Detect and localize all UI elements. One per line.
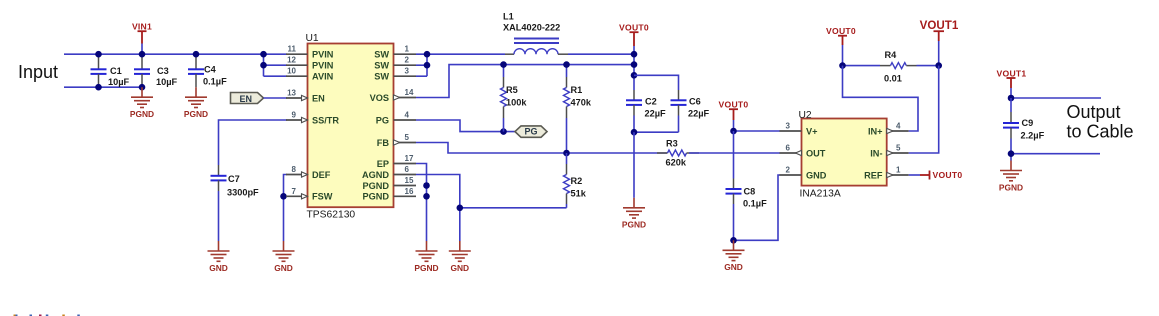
node SW1 [424, 51, 431, 58]
svg-text:C7: C7 [228, 174, 240, 184]
svg-text:U2: U2 [799, 110, 812, 121]
wire C2/C6 bottom join [634, 131, 679, 133]
node VOUT0 at SW rail [631, 51, 638, 58]
svg-text:0.1µF: 0.1µF [743, 199, 767, 209]
svg-text:2.2µF: 2.2µF [1021, 131, 1045, 141]
pin 9 SS/TR stub [286, 111, 339, 126]
capacitor C2 [626, 97, 666, 133]
node PGND pin15 [423, 182, 430, 189]
svg-text:GND: GND [274, 263, 293, 273]
wire DEF down to FSW [284, 175, 288, 242]
pin 6 AGND stub [362, 165, 416, 180]
pin 5 FB stub [377, 133, 416, 148]
svg-text:4: 4 [405, 111, 410, 120]
capacitor C6 [671, 97, 710, 133]
pin 10 AVIN stub [286, 67, 334, 82]
svg-text:AGND: AGND [362, 170, 389, 180]
node PVIN pin11 branch [260, 51, 267, 58]
wire top input rail [64, 53, 287, 55]
wire V+ node down to C8 [733, 131, 735, 179]
pin 11 PVIN stub [286, 45, 334, 60]
power port VOUT1 at R4 right [920, 19, 959, 66]
inductor L1 [503, 12, 568, 55]
svg-text:22µF: 22µF [645, 109, 667, 119]
ground PGND under C3 [130, 87, 154, 119]
svg-text:PGND: PGND [622, 220, 646, 230]
svg-text:12: 12 [287, 56, 296, 65]
svg-text:GND: GND [450, 263, 469, 273]
svg-text:FSW: FSW [312, 192, 333, 202]
wire bottom input rail [64, 86, 142, 88]
svg-text:GND: GND [806, 170, 827, 180]
node C8 bottom [730, 237, 737, 244]
resistor R4 [843, 50, 939, 84]
svg-text:EN: EN [312, 93, 325, 103]
node DEF/FSW junction [280, 193, 287, 200]
svg-text:PG: PG [525, 127, 538, 137]
pin 16 PGND stub [362, 187, 416, 202]
svg-text:EN: EN [240, 94, 253, 104]
wire GND pin2 of U2 [734, 175, 781, 240]
wire REF to VOUT0 port [909, 170, 963, 180]
svg-text:620k: 620k [666, 158, 687, 168]
svg-text:PGND: PGND [184, 109, 208, 119]
pin 5 IN- stub [870, 144, 908, 159]
wire to pin 10 [264, 75, 288, 77]
svg-text:SW: SW [374, 61, 389, 71]
node C2 bottom [631, 129, 638, 136]
svg-text:TPS62130: TPS62130 [307, 210, 356, 221]
svg-text:15: 15 [405, 176, 414, 185]
pin 17 EP stub [377, 154, 416, 169]
svg-text:IN-: IN- [870, 148, 882, 158]
svg-text:U1: U1 [306, 33, 319, 44]
pin 14 VOS stub [370, 88, 416, 103]
svg-text:L1: L1 [503, 12, 514, 22]
power port VOUT0 at R4 left [826, 26, 856, 66]
wire PG [416, 120, 515, 132]
svg-text:SW: SW [374, 50, 389, 60]
svg-text:5: 5 [405, 133, 410, 142]
node C1 top [95, 51, 102, 58]
resistor R2 [564, 153, 587, 208]
svg-text:51k: 51k [571, 189, 587, 199]
power port VIN1 [132, 22, 152, 55]
svg-text:VOUT0: VOUT0 [619, 23, 649, 33]
wire VOS rail [416, 65, 634, 98]
svg-text:C9: C9 [1022, 118, 1034, 128]
bottom clipped text marks [14, 315, 80, 316]
svg-text:8: 8 [292, 165, 297, 174]
svg-text:2: 2 [405, 56, 410, 65]
svg-text:VOUT0: VOUT0 [933, 170, 963, 180]
ground PGND under C4 [184, 87, 208, 119]
op-amp U2 INA213A body [799, 110, 887, 200]
node C3 top / VIN1 [139, 51, 146, 58]
wire FB rail [416, 143, 667, 154]
svg-text:PG: PG [376, 115, 389, 125]
svg-text:AVIN: AVIN [312, 72, 334, 82]
svg-text:1: 1 [896, 166, 901, 175]
svg-text:5: 5 [896, 144, 901, 153]
svg-text:PVIN: PVIN [312, 61, 334, 71]
svg-text:22µF: 22µF [688, 109, 710, 119]
resistor R1 [564, 65, 592, 153]
svg-text:100k: 100k [506, 98, 527, 108]
node SW2 [424, 62, 431, 69]
svg-text:GND: GND [724, 262, 743, 272]
pin 1 SW stub [374, 45, 416, 60]
ground GND under DEF/FSW [273, 241, 295, 273]
node VOUT0 C6 branch [631, 72, 638, 79]
ground GND under C7 [208, 241, 230, 273]
node C4 top [193, 51, 200, 58]
pin 13 EN stub [286, 89, 325, 104]
wire R4 left to IN+ [843, 66, 919, 131]
svg-text:C4: C4 [204, 65, 217, 75]
svg-text:C2: C2 [645, 97, 657, 107]
svg-text:10µF: 10µF [156, 77, 178, 87]
svg-text:Output: Output [1067, 102, 1121, 122]
svg-text:7: 7 [292, 187, 297, 196]
pin 4 IN+ stub [868, 122, 909, 137]
op-amp U1 TPS62130 body [306, 33, 394, 221]
pin 3 V+ stub [780, 122, 818, 137]
svg-text:to Cable: to Cable [1067, 122, 1134, 142]
wire AGND to R2 bottom [460, 207, 567, 209]
wire R3 to OUT [689, 152, 780, 154]
svg-text:C1: C1 [110, 66, 122, 76]
pin 1 REF stub [864, 166, 909, 181]
resistor R3 [657, 139, 699, 168]
wire output bottom [1011, 153, 1100, 155]
svg-text:C6: C6 [689, 97, 701, 107]
wire SS/TR to C7 [219, 120, 288, 165]
node PVIN pin12 branch [260, 62, 267, 69]
pin 7 FSW stub [286, 187, 333, 202]
svg-text:VOS: VOS [370, 93, 389, 103]
svg-text:VOUT1: VOUT1 [920, 19, 959, 32]
node FB / R1 / R2 [563, 150, 570, 157]
node C3 bottom [139, 84, 146, 91]
svg-text:0.01: 0.01 [884, 74, 902, 84]
pin 12 PVIN stub [286, 56, 334, 71]
net flag PG [515, 126, 547, 137]
pin 3 SW stub [374, 67, 416, 82]
svg-text:FB: FB [377, 138, 390, 148]
svg-text:9: 9 [292, 111, 297, 120]
svg-text:PVIN: PVIN [312, 50, 334, 60]
node C9 bottom [1008, 150, 1015, 157]
svg-text:1: 1 [405, 45, 410, 54]
svg-text:470k: 470k [571, 98, 592, 108]
node V+ junction [730, 128, 737, 135]
svg-text:3: 3 [405, 67, 410, 76]
svg-text:10: 10 [287, 67, 296, 76]
svg-text:XAL4020-222: XAL4020-222 [503, 23, 560, 33]
power port VOUT1 at C9 [997, 68, 1027, 98]
svg-text:0.1µF: 0.1µF [203, 77, 227, 87]
ground PGND under EP [414, 241, 438, 273]
svg-text:PGND: PGND [999, 182, 1023, 192]
svg-text:EP: EP [377, 159, 389, 169]
svg-text:SS/TR: SS/TR [312, 115, 339, 125]
svg-text:C3: C3 [157, 66, 169, 76]
node PG / R5 bottom [500, 128, 507, 135]
svg-text:3: 3 [786, 122, 791, 131]
svg-text:VOUT1: VOUT1 [997, 68, 1027, 78]
svg-text:PGND: PGND [362, 192, 389, 202]
svg-text:17: 17 [405, 154, 414, 163]
svg-text:V+: V+ [806, 126, 818, 136]
wire V+ [734, 130, 781, 132]
pin 8 DEF stub [286, 165, 331, 180]
svg-text:VOUT0: VOUT0 [826, 26, 856, 36]
capacitor C9 [1003, 98, 1045, 161]
ground PGND under C9 [999, 161, 1023, 193]
pin 2 SW stub [374, 56, 416, 71]
svg-text:R1: R1 [571, 85, 583, 95]
svg-text:PGND: PGND [362, 181, 389, 191]
wire C6 branch [634, 75, 679, 90]
svg-text:IN+: IN+ [868, 126, 883, 136]
power port VOUT0 at V+ [719, 100, 749, 132]
wire AGND down [416, 175, 460, 242]
wire PVIN branch vertical [263, 54, 265, 76]
ground PGND under C2/C6 [622, 198, 646, 230]
wire output top [1011, 97, 1101, 99]
svg-text:11: 11 [288, 45, 297, 54]
node C1 bottom [95, 84, 102, 91]
pin 6 OUT stub [780, 144, 826, 159]
wire SW pins junction [416, 54, 505, 76]
svg-text:10µF: 10µF [108, 77, 130, 87]
capacitor C3 [134, 54, 178, 87]
ground GND under AGND [449, 241, 471, 273]
ground GND under C8 [723, 240, 745, 272]
svg-text:4: 4 [896, 122, 901, 131]
svg-text:VOUT0: VOUT0 [719, 100, 749, 110]
wire EP to PGND [416, 164, 427, 242]
svg-text:GND: GND [209, 263, 228, 273]
svg-text:6: 6 [786, 144, 791, 153]
node R4 right [935, 62, 942, 69]
node VOUT0 at VOS rail [631, 61, 638, 68]
capacitor C8 [726, 187, 768, 241]
node R5 top [500, 61, 507, 68]
svg-text:REF: REF [864, 170, 883, 180]
svg-text:R2: R2 [571, 176, 583, 186]
svg-text:SW: SW [374, 72, 389, 82]
svg-text:2: 2 [786, 166, 791, 175]
svg-text:6: 6 [405, 165, 410, 174]
wire R4 right to IN- [909, 66, 939, 153]
node C9 top [1008, 95, 1015, 102]
power port VOUT0 output node [619, 23, 649, 47]
svg-text:R5: R5 [506, 85, 518, 95]
resistor R5 [501, 65, 528, 132]
svg-text:3300pF: 3300pF [227, 188, 259, 198]
wire L1 to VOUT0 node [568, 53, 634, 55]
svg-text:PGND: PGND [414, 263, 438, 273]
svg-text:16: 16 [405, 187, 414, 196]
wire to pin 12 [264, 64, 288, 66]
svg-text:OUT: OUT [806, 148, 826, 158]
svg-text:13: 13 [287, 89, 296, 98]
wire down to PGND [633, 132, 635, 198]
node R1 top [563, 61, 570, 68]
node AGND junction [457, 205, 464, 212]
capacitor C4 [188, 54, 227, 87]
capacitor C7 [211, 174, 260, 241]
svg-text:VIN1: VIN1 [132, 22, 152, 32]
wire VOUT0 vertical [633, 46, 635, 90]
svg-text:Input: Input [18, 62, 58, 82]
svg-text:DEF: DEF [312, 170, 331, 180]
pin 4 PG stub [376, 111, 416, 126]
svg-text:R3: R3 [666, 139, 678, 149]
svg-text:C8: C8 [744, 187, 756, 197]
capacitor C1 [91, 54, 130, 87]
wire FSW stub join [284, 195, 288, 197]
node R4 left [839, 62, 846, 69]
svg-text:14: 14 [405, 88, 414, 97]
node PGND pin16 [423, 193, 430, 200]
svg-text:INA213A: INA213A [800, 189, 841, 200]
Output to Cable label [1067, 102, 1134, 141]
pin 2 GND stub [780, 166, 827, 181]
pin 15 PGND stub [362, 176, 416, 191]
net flag EN [231, 93, 288, 104]
svg-text:R4: R4 [885, 50, 898, 60]
svg-text:PGND: PGND [130, 109, 154, 119]
